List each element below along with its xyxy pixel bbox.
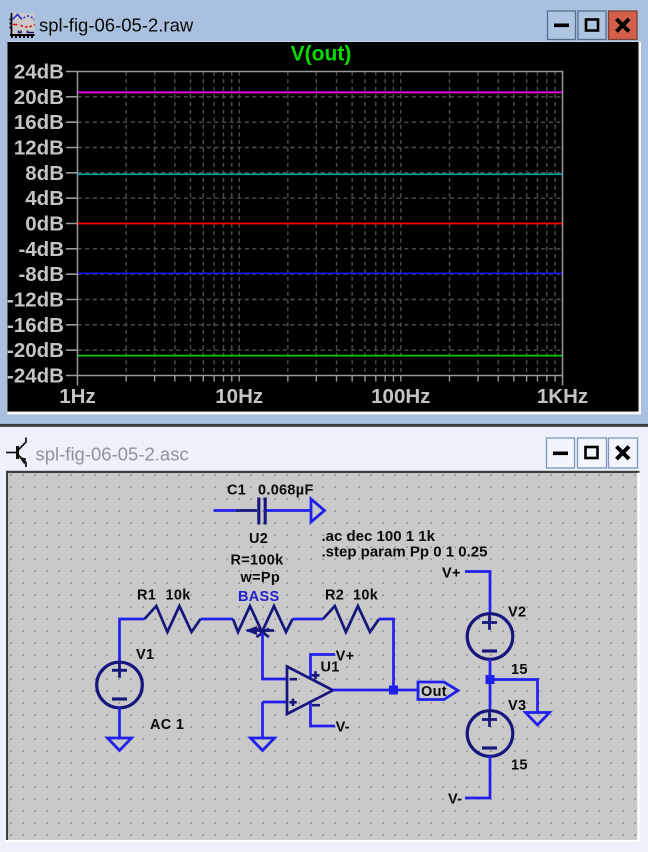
window2 titlebar transistor icon	[6, 438, 26, 468]
svg-text:16dB: 16dB	[14, 111, 64, 134]
wire V2 to V3	[489, 659, 492, 710]
svg-text:.ac dec 100 1 1k: .ac dec 100 1 1k	[322, 528, 436, 545]
svg-text:-16dB: -16dB	[7, 314, 64, 337]
svg-text:V2: V2	[508, 605, 526, 621]
ground under op-amp + input	[251, 738, 275, 751]
ground at supplies	[526, 713, 550, 726]
svg-text:spl-fig-06-05-2.asc: spl-fig-06-05-2.asc	[36, 444, 189, 465]
wire R2 to output node	[379, 619, 394, 690]
y-axis labels	[7, 61, 64, 388]
trace step Pp=0.25 (blue -7.8dB)	[78, 272, 562, 274]
junction at output node	[389, 686, 398, 695]
svg-text:V1: V1	[136, 647, 154, 663]
svg-text:R2: R2	[325, 588, 344, 604]
svg-text:-4dB: -4dB	[18, 238, 64, 261]
svg-text:R=100k: R=100k	[231, 553, 285, 569]
svg-text:V-: V-	[448, 792, 462, 808]
potentiometer U2 wiper arrow	[247, 629, 274, 638]
svg-text:10k: 10k	[166, 588, 192, 604]
schematic canvas sunken border	[6, 471, 640, 473]
window1 titlebar waveform icon	[10, 13, 36, 38]
x-axis labels	[59, 385, 588, 408]
wire to C1 left	[214, 509, 238, 512]
window1 close button	[609, 11, 638, 40]
window2 maximize button	[578, 438, 607, 468]
wire junction to ground	[490, 680, 538, 713]
trace step Pp=0 (green -20.7dB)	[78, 355, 562, 357]
window1 minimize button	[548, 11, 576, 40]
window 1 titlebar light bevel line	[8, 41, 640, 42]
svg-text:U2: U2	[249, 531, 268, 547]
svg-text:-24dB: -24dB	[7, 365, 64, 388]
svg-text:4dB: 4dB	[25, 187, 64, 210]
svg-text:12dB: 12dB	[14, 137, 64, 160]
svg-text:15: 15	[511, 758, 528, 774]
wire V3 to V- rail	[465, 756, 490, 798]
svg-text:1KHz: 1KHz	[537, 385, 588, 408]
op-amp U1 body	[287, 667, 333, 715]
svg-text:24dB: 24dB	[14, 61, 64, 84]
wire noninv to ground	[261, 702, 264, 738]
voltage source V2	[467, 614, 513, 660]
junction between V2 and V3	[486, 675, 495, 684]
svg-text:BASS: BASS	[238, 589, 280, 605]
svg-text:10Hz: 10Hz	[215, 385, 263, 408]
potentiometer U2 body	[233, 606, 293, 632]
svg-text:-12dB: -12dB	[7, 289, 64, 312]
svg-text:V+: V+	[336, 649, 355, 665]
svg-text:8dB: 8dB	[25, 162, 64, 185]
trace step Pp=1 (magenta +20.7dB)	[78, 91, 562, 93]
svg-text:100Hz: 100Hz	[371, 385, 430, 408]
x-axis ticks	[126, 376, 555, 382]
voltage source V1	[97, 662, 143, 708]
resistor R2	[323, 606, 379, 632]
ground under V1	[108, 738, 132, 751]
svg-text:1Hz: 1Hz	[59, 385, 95, 408]
plot frame	[78, 72, 563, 376]
svg-text:V+: V+	[442, 566, 461, 582]
voltage source V3	[467, 711, 513, 757]
svg-text:C1: C1	[227, 483, 246, 499]
wire V+ stub	[311, 655, 336, 678]
svg-text:20dB: 20dB	[14, 86, 64, 109]
wire output to Out flag	[333, 689, 417, 692]
window 1 frame (waveform viewer)	[0, 0, 648, 427]
resistor R1	[145, 606, 201, 632]
svg-text:-20dB: -20dB	[7, 339, 64, 362]
Out net flag	[418, 682, 458, 700]
svg-text:R1: R1	[137, 588, 156, 604]
wire V1 to R1	[120, 619, 145, 662]
svg-text:0.068µF: 0.068µF	[258, 483, 314, 499]
op-amp input markers	[289, 671, 320, 706]
wire U2 to R2	[293, 618, 324, 621]
svg-text:.step param Pp 0 1 0.25: .step param Pp 0 1 0.25	[322, 544, 488, 561]
window1 bottom dark frame line	[0, 424, 648, 427]
y-axis ticks	[66, 72, 78, 376]
wire wiper to inverting input	[263, 633, 288, 679]
window 2 frame (schematic editor)	[0, 427, 648, 852]
svg-text:V3: V3	[508, 698, 526, 714]
svg-text:w=Pp: w=Pp	[240, 570, 280, 586]
svg-text:V(out): V(out)	[291, 43, 352, 66]
wire R1 to U2	[201, 618, 234, 621]
capacitor C1	[236, 498, 265, 525]
trace step Pp=0.75 (teal +7.8dB)	[78, 173, 562, 175]
trace step Pp=0.5 (red 0dB)	[78, 223, 562, 225]
wire noninv input	[263, 701, 288, 704]
svg-text:15: 15	[511, 662, 528, 678]
svg-text:0dB: 0dB	[25, 213, 64, 236]
window2 close button	[609, 438, 638, 468]
plot grid dashed lines	[78, 72, 563, 376]
svg-text:AC 1: AC 1	[150, 717, 184, 733]
svg-text:spl-fig-06-05-2.raw: spl-fig-06-05-2.raw	[39, 15, 194, 36]
window1 client sunken bevel (bottom/right white)	[8, 412, 642, 415]
wire V- stub	[311, 703, 336, 726]
arrowhead on C1 wire	[311, 499, 325, 522]
wire V1 to ground	[118, 708, 121, 739]
window 1 plot client area	[8, 42, 640, 412]
svg-text:Out: Out	[421, 684, 447, 700]
svg-text:-8dB: -8dB	[18, 263, 64, 286]
window2 minimize button	[547, 438, 575, 468]
wire V+ rail to V2	[465, 572, 490, 615]
wire from C1 right	[267, 509, 311, 512]
svg-text:10k: 10k	[353, 588, 379, 604]
window1 maximize button	[578, 11, 606, 40]
svg-text:V-: V-	[336, 720, 350, 736]
